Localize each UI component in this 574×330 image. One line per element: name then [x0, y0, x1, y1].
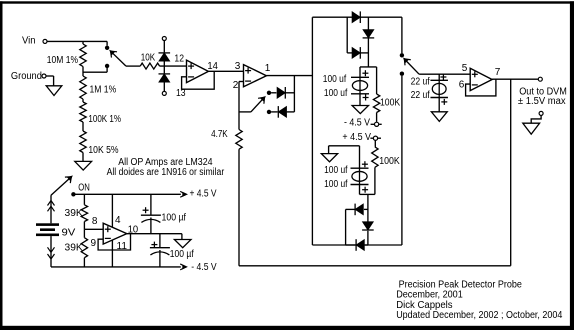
svg-text:4.7K: 4.7K	[211, 129, 228, 140]
svg-text:100 uf: 100 uf	[323, 74, 347, 85]
svg-text:6: 6	[459, 80, 465, 91]
svg-text:1: 1	[265, 63, 271, 74]
svg-text:39K: 39K	[65, 208, 84, 219]
svg-text:10K 5%: 10K 5%	[88, 145, 118, 156]
svg-text:100K 1%: 100K 1%	[88, 114, 121, 125]
svg-text:Vin: Vin	[22, 36, 36, 47]
svg-text:10K: 10K	[141, 53, 156, 64]
svg-text:8: 8	[92, 216, 98, 227]
svg-text:Ground: Ground	[11, 71, 42, 82]
svg-text:+ 4.5 V: + 4.5 V	[190, 189, 217, 200]
svg-text:9V: 9V	[62, 228, 76, 239]
svg-text:22 uf: 22 uf	[411, 77, 430, 88]
svg-text:4: 4	[115, 215, 121, 226]
svg-text:All doides are 1N916 or simila: All doides are 1N916 or similar	[107, 167, 225, 178]
svg-text:+ 4.5 V: + 4.5 V	[342, 132, 371, 143]
svg-text:100 µf: 100 µf	[170, 249, 194, 260]
svg-text:1M 1%: 1M 1%	[90, 84, 117, 95]
svg-text:2: 2	[233, 80, 239, 91]
svg-text:100 uf: 100 uf	[324, 179, 348, 190]
svg-text:9: 9	[91, 238, 97, 249]
svg-text:12: 12	[174, 54, 184, 65]
svg-text:7: 7	[495, 67, 501, 78]
svg-text:100K: 100K	[380, 97, 400, 108]
svg-text:3: 3	[235, 61, 241, 72]
svg-text:± 1.5V max: ± 1.5V max	[518, 96, 566, 107]
svg-text:39K: 39K	[65, 242, 84, 253]
svg-text:100K: 100K	[379, 156, 400, 167]
svg-text:- 4.5 V: - 4.5 V	[344, 117, 370, 128]
svg-text:100 uf: 100 uf	[324, 88, 348, 99]
svg-text:100 µf: 100 µf	[162, 212, 187, 223]
svg-text:Updated December, 2002 ; Octob: Updated December, 2002 ; October, 2004	[396, 310, 563, 321]
svg-text:- 4.5 V: - 4.5 V	[191, 262, 217, 273]
svg-text:100 uf: 100 uf	[324, 165, 348, 176]
svg-text:22 uf: 22 uf	[411, 90, 430, 101]
svg-text:ON: ON	[78, 183, 90, 194]
svg-text:14: 14	[207, 61, 218, 72]
svg-text:10M 1%: 10M 1%	[47, 55, 78, 66]
svg-text:5: 5	[462, 63, 468, 74]
